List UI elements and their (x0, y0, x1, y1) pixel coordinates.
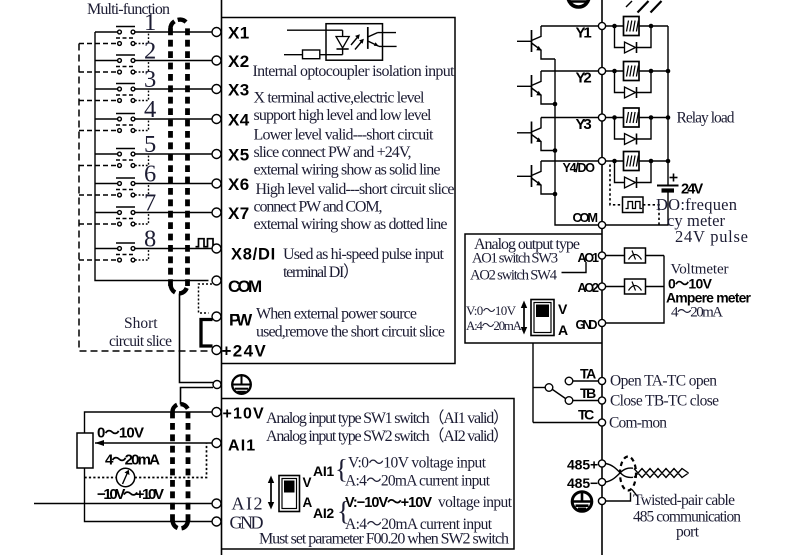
svg-text:AO1: AO1 (578, 251, 600, 265)
terminal AI2 (212, 499, 221, 508)
switch S7 (79, 190, 213, 226)
DIP switch SW3/SW4 arrow (521, 301, 527, 335)
svg-text:1: 1 (144, 9, 156, 36)
svg-text:A:4～20mA current input: A:4～20mA current input (345, 473, 491, 490)
svg-text:Y3: Y3 (576, 116, 592, 133)
svg-text:Y4/DO: Y4/DO (563, 161, 596, 175)
wire dotted current-source loop to AI1 (85, 443, 207, 478)
svg-text:5: 5 (144, 131, 156, 158)
svg-text:+24V: +24V (222, 342, 267, 361)
leader to twisted pair note (632, 490, 638, 498)
terminal 485- (598, 478, 605, 485)
svg-text:Open TA-TC open: Open TA-TC open (610, 373, 717, 390)
svg-text:TC: TC (578, 407, 594, 423)
twisted pair wire + (606, 464, 634, 478)
wire TB (573, 400, 599, 402)
svg-text:external wiring show as solid: external wiring show as solid line (254, 162, 441, 179)
svg-text:Y1: Y1 (576, 25, 592, 42)
svg-text:2: 2 (144, 38, 156, 65)
junction dots emitter rail (553, 102, 558, 107)
optocoupler output wires (378, 32, 397, 34)
wire Y4 collector (541, 160, 599, 162)
battery 24V (657, 174, 679, 191)
svg-text:A: A (558, 322, 568, 338)
terminal AI1 (212, 439, 221, 448)
svg-text:4～20mA: 4～20mA (671, 304, 723, 321)
light arrows (351, 34, 364, 49)
svg-text:3: 3 (144, 66, 156, 93)
svg-text:Y2: Y2 (576, 70, 592, 87)
wire TA (573, 380, 599, 382)
svg-text:A:4～20mA: A:4～20mA (466, 318, 523, 333)
dotted slice COM-PW (199, 284, 213, 313)
wire battery to COM (606, 193, 669, 226)
svg-text:AO2: AO2 (578, 281, 600, 295)
shield tube digital inputs (170, 20, 187, 294)
svg-text:X2: X2 (228, 52, 249, 71)
svg-text:support high level and low lev: support high level and low level (254, 107, 433, 124)
SECTION: middle lower box (222, 399, 515, 550)
terminal AO2 (598, 283, 605, 290)
svg-text:Short: Short (124, 315, 158, 332)
terminal AO1 (598, 252, 605, 259)
svg-text:A: A (303, 495, 313, 510)
svg-text:Analog input type SW2 switch（A: Analog input type SW2 switch（AI2 valid） (266, 427, 509, 445)
optocoupler input wire top (287, 29, 343, 31)
relay contact pole (533, 384, 566, 399)
svg-text:X5: X5 (228, 146, 249, 165)
LED D1 (336, 30, 349, 55)
terminal PW (212, 312, 221, 321)
svg-text:AI1: AI1 (228, 438, 255, 455)
SECTION: middle upper box (222, 18, 456, 364)
svg-text:Internal optocoupler isolation: Internal optocoupler isolation input (253, 63, 456, 80)
wire earth to shield (606, 493, 631, 502)
svg-text:Com-mon: Com-mon (609, 415, 667, 432)
svg-text:AI2: AI2 (313, 505, 334, 521)
meter M2 (ammeter) (606, 279, 665, 294)
terminal earth (213, 381, 221, 389)
svg-text:GND: GND (576, 318, 598, 332)
phototransistor Q (368, 27, 379, 49)
svg-text:V:0～10V: V:0～10V (466, 303, 517, 318)
cut-off earth symbol remnant (top) (568, 0, 589, 7)
svg-text:AO2 switch SW4: AO2 switch SW4 (470, 268, 558, 284)
SECTION: left terminal strip (199, 0, 276, 555)
terminal TB (598, 397, 605, 404)
svg-text:connect PW and COM,: connect PW and COM, (254, 199, 383, 216)
svg-text:COM: COM (228, 277, 262, 296)
switch S8 (79, 226, 213, 262)
relay K4 (606, 152, 671, 189)
switch S2 (79, 38, 213, 74)
cut-off slash marks (top) (626, 1, 662, 13)
svg-text:+10V: +10V (223, 406, 265, 423)
terminal +24V (212, 346, 221, 355)
svg-text:X3: X3 (228, 81, 249, 100)
pulse symbol at X8 (196, 239, 215, 247)
svg-text:X7: X7 (228, 204, 249, 223)
svg-text:V:−10V～+10V: V:−10V～+10V (345, 495, 432, 511)
dotted DO output path (610, 165, 623, 205)
svg-text:slice connect PW and +24V,: slice connect PW and +24V, (254, 144, 412, 161)
svg-text:X1: X1 (228, 24, 249, 43)
DIP switch SW1/SW2 body (279, 476, 300, 512)
switch S6 (79, 161, 213, 197)
svg-text:4: 4 (144, 96, 156, 123)
transistor Q3 (517, 118, 555, 151)
svg-text:Lower level valid---short circ: Lower level valid---short circuit (254, 127, 435, 144)
terminal COM (212, 276, 221, 285)
svg-text:TA: TA (580, 366, 596, 382)
svg-text:High level valid---short circu: High level valid---short circuit slice (256, 181, 455, 198)
current source (4-20mA) (116, 468, 134, 486)
potentiometer (0-10V source) (77, 433, 93, 468)
SECTION: right outputs (465, 0, 752, 555)
svg-text:4～20mA: 4～20mA (105, 452, 160, 469)
svg-text:Analog input type SW1 switch（A: Analog input type SW1 switch（AI1 valid） (266, 409, 509, 427)
svg-text:485+: 485+ (567, 457, 598, 473)
svg-text:X4: X4 (228, 111, 250, 130)
svg-text:X6: X6 (228, 175, 249, 194)
terminal X5 (212, 150, 221, 159)
svg-text:24V pulse: 24V pulse (675, 227, 748, 246)
terminal X3 (212, 85, 221, 94)
terminal X8/DI (212, 244, 221, 253)
terminal X7 (212, 208, 221, 217)
terminal TA (598, 377, 605, 384)
svg-text:circuit slice: circuit slice (109, 333, 172, 350)
wire solid bus to COM (95, 32, 209, 281)
meter return rail (606, 256, 665, 324)
svg-text:Close TB-TC close: Close TB-TC close (610, 393, 719, 410)
svg-text:X terminal active,electric lev: X terminal active,electric level (254, 90, 426, 107)
svg-text:AI1: AI1 (313, 463, 334, 479)
transistor Q1 (517, 26, 555, 59)
twisted cable coil (634, 469, 689, 478)
optocoupler U1 body (326, 24, 383, 61)
resistor R (input) (303, 50, 320, 59)
transistor Q4 (517, 161, 555, 194)
box analog output (465, 234, 602, 343)
svg-text:PW: PW (229, 311, 253, 330)
DO frequency meter box (623, 197, 644, 213)
svg-text:V:0～10V voltage input: V:0～10V voltage input (348, 455, 487, 472)
terminal X6 (212, 179, 221, 188)
svg-text:voltage input: voltage input (438, 494, 513, 511)
terminal Y1 (598, 22, 605, 29)
wire earth to analog shield (181, 388, 214, 405)
short circuit slice PW-+24V (201, 320, 213, 347)
switch S3 (79, 66, 213, 102)
wire AO box to relay contact (532, 343, 534, 423)
transistor Q2 (517, 71, 555, 104)
box digital input notes (222, 18, 456, 364)
twisted pair wire - (606, 468, 634, 482)
svg-text:X8/DI: X8/DI (231, 246, 275, 264)
terminal TC (598, 419, 605, 426)
wire dashed bus to +24V (79, 44, 209, 352)
svg-text:AO1 switch SW3: AO1 switch SW3 (472, 251, 558, 267)
relay K3 (606, 108, 671, 145)
svg-text:Must set parameter F00.20 when: Must set parameter F00.20 when SW2 switc… (259, 531, 509, 548)
svg-text:used,remove the short circuit: used,remove the short circuit slice (256, 324, 445, 341)
terminal COM (right) (598, 221, 605, 228)
terminal Y3 (598, 114, 605, 121)
wire potentiometer bottom to GND (85, 468, 213, 522)
shield tube analog inputs (173, 404, 189, 528)
main right terminal line (601, 0, 603, 555)
terminal Y4/DO (598, 157, 605, 164)
switch S1 (79, 9, 213, 45)
optocoupler input wire bottom (284, 54, 303, 56)
terminal X1 (212, 28, 221, 37)
terminal +10V (212, 408, 221, 417)
svg-text:GND: GND (230, 513, 264, 533)
earth symbol (PE) (232, 375, 251, 394)
shield ellipse (485 cable) (620, 457, 636, 491)
terminal earth (485) (598, 497, 605, 504)
svg-text:Used as hi-speed pulse input: Used as hi-speed pulse input (283, 246, 445, 263)
svg-text:0～10V: 0～10V (97, 425, 144, 442)
switch S4 (79, 96, 213, 132)
svg-text:AI2: AI2 (232, 494, 263, 514)
svg-text:COM: COM (573, 210, 599, 225)
terminal GND (right) (598, 319, 605, 326)
wire shield to earth terminal (180, 294, 214, 383)
svg-text:When external power source: When external power source (256, 306, 417, 323)
svg-text:port: port (676, 524, 700, 541)
svg-text:485−: 485− (567, 475, 598, 491)
dotted DO to COM (643, 205, 659, 225)
svg-text:7: 7 (144, 190, 156, 217)
emitter common rail (555, 59, 599, 225)
pointer line SW note (562, 262, 587, 273)
earth symbol PE (485) (572, 492, 592, 512)
relay K2 (606, 62, 671, 99)
contact TB (565, 397, 573, 405)
DIP switch SW3/SW4 body (531, 300, 554, 336)
svg-text:6: 6 (144, 161, 156, 188)
svg-text:TB: TB (580, 385, 596, 401)
svg-text:external wiring show as dotted: external wiring show as dotted line (254, 216, 448, 233)
wire Y3 collector (541, 117, 599, 119)
pulse waveform in DO box (626, 202, 643, 209)
wire resistor to LED (320, 54, 343, 56)
svg-text:V: V (303, 475, 312, 490)
wire TC (533, 422, 599, 424)
wire Y1 collector (541, 25, 599, 27)
terminal Y2 (598, 67, 605, 74)
svg-text:Multi-function: Multi-function (87, 1, 170, 18)
wire potentiometer wiper to AI1 (95, 440, 213, 446)
terminal 485+ (598, 460, 605, 467)
contact TA (565, 377, 573, 385)
DIP switch SW1/SW2 arrow (268, 476, 274, 510)
svg-text:−10V～+10V: −10V～+10V (97, 486, 164, 503)
main left terminal line (221, 0, 223, 555)
svg-text:Relay load: Relay load (677, 110, 735, 127)
svg-text:Twisted-pair cable: Twisted-pair cable (633, 492, 735, 509)
svg-text:terminal DI）: terminal DI） (283, 263, 359, 281)
terminal X2 (212, 56, 221, 65)
relay supply rail (667, 26, 669, 185)
meter M1 (voltmeter) (606, 248, 665, 263)
switch S5 (79, 131, 213, 167)
svg-text:V: V (558, 301, 568, 317)
box analog input notes (222, 399, 515, 550)
svg-text:8: 8 (144, 226, 156, 253)
relay K1 (606, 17, 669, 54)
terminal GND (212, 517, 221, 526)
terminal X4 (212, 115, 221, 124)
wire +10V to potentiometer top (85, 412, 213, 433)
wire Y2 collector (541, 70, 599, 72)
wire external AI2 input (34, 503, 213, 505)
SECTION: left multi-function inputs (34, 1, 215, 529)
